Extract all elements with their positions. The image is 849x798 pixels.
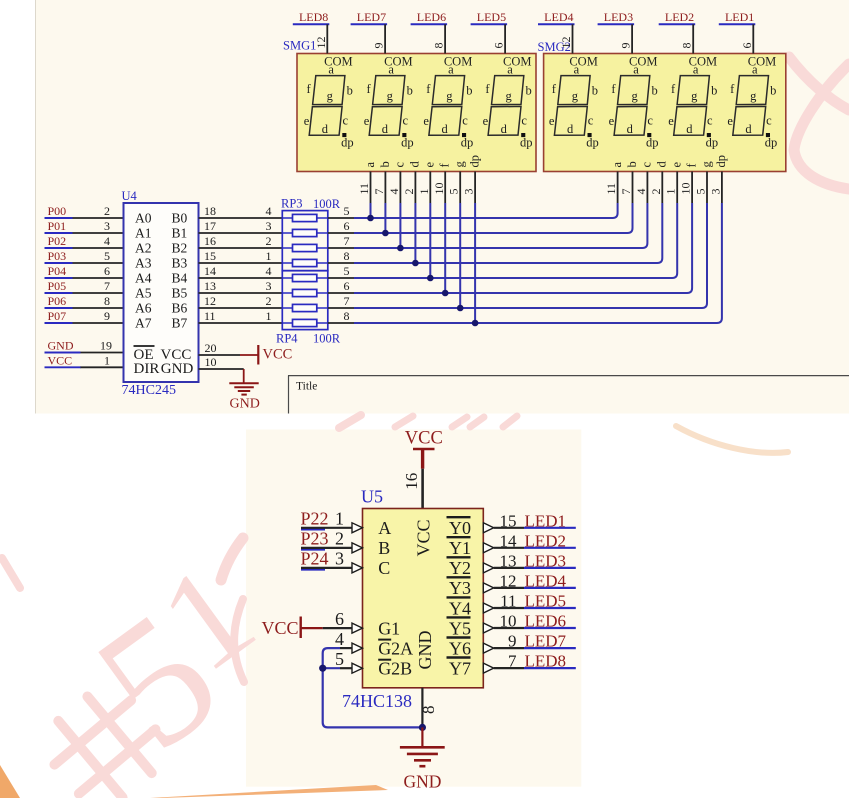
- wire SMG1 pin drop 4: [414, 203, 416, 263]
- net label P00: [45, 217, 73, 219]
- pin triangle Y0: [483, 523, 493, 533]
- svg-text:A6: A6: [135, 301, 152, 316]
- svg-text:Y7: Y7: [449, 658, 471, 678]
- wire U4 pin 15 to RP: [199, 262, 283, 264]
- resistor network RP3 box: [282, 211, 328, 271]
- net label VCC: [45, 366, 81, 368]
- net label P07: [45, 322, 73, 324]
- resistor network RP4 box: [282, 271, 328, 330]
- resistor element 2: [282, 232, 328, 234]
- display module SMG1 body: [297, 54, 536, 172]
- wire segment bus row 2: [354, 203, 633, 233]
- svg-text:2: 2: [266, 234, 272, 248]
- svg-text:8: 8: [344, 309, 350, 323]
- svg-text:19: 19: [100, 339, 112, 353]
- svg-text:2: 2: [266, 294, 272, 308]
- wire U4 pin 20 to VCC: [199, 354, 241, 356]
- svg-text:GND: GND: [230, 397, 260, 412]
- net label LED8: [524, 667, 576, 669]
- pin triangle Y1: [483, 543, 493, 553]
- resistor element 8: [282, 322, 328, 324]
- svg-text:17: 17: [204, 219, 216, 233]
- svg-text:GND: GND: [415, 631, 435, 670]
- wire U4 pin 18 to RP: [199, 217, 283, 219]
- RP output pin 8: [328, 262, 354, 264]
- svg-text:b: b: [711, 83, 717, 97]
- svg-text:12: 12: [559, 37, 573, 49]
- svg-text:9: 9: [508, 632, 517, 651]
- svg-text:e: e: [549, 114, 555, 128]
- svg-text:LED8: LED8: [299, 10, 328, 24]
- wire U5 pin 4 G2A loop: [323, 648, 423, 727]
- svg-text:6: 6: [344, 219, 350, 233]
- svg-text:c: c: [403, 114, 409, 128]
- wire P05 to U4 pin 7: [72, 292, 124, 294]
- svg-text:dp: dp: [586, 136, 599, 150]
- svg-text:11: 11: [204, 309, 216, 323]
- SMG1 pin stub c: [399, 172, 401, 204]
- svg-text:g: g: [691, 89, 698, 103]
- 7-segment digit SMG2-3: [668, 55, 718, 150]
- junction node row 8: [472, 320, 479, 327]
- svg-text:GND: GND: [48, 339, 74, 353]
- svg-text:16: 16: [204, 234, 216, 248]
- svg-text:a: a: [610, 162, 624, 168]
- svg-text:10: 10: [679, 183, 693, 195]
- svg-text:LED5: LED5: [477, 10, 506, 24]
- svg-text:a: a: [363, 162, 377, 168]
- svg-text:P02: P02: [48, 234, 67, 248]
- wire segment bus row 4: [354, 203, 662, 263]
- net label P04: [45, 277, 73, 279]
- svg-text:VCC: VCC: [262, 618, 299, 638]
- wire U4 pin 12 to RP: [199, 307, 283, 309]
- wire segment bus row 3: [354, 203, 647, 248]
- svg-text:9: 9: [104, 309, 110, 323]
- svg-text:5: 5: [694, 189, 708, 195]
- svg-text:SMG1: SMG1: [283, 39, 316, 53]
- svg-text:d: d: [501, 122, 508, 136]
- svg-text:d: d: [745, 122, 752, 136]
- svg-text:c: c: [343, 114, 349, 128]
- wire U4 pin 11 to RP: [199, 322, 283, 324]
- svg-text:8: 8: [419, 706, 438, 715]
- wire COM LED5: [504, 24, 506, 53]
- wire GND to U4 pin 19: [80, 352, 124, 354]
- resistor element 5: [282, 277, 328, 279]
- svg-text:5: 5: [104, 249, 110, 263]
- wire Y2 to LED3: [494, 567, 524, 569]
- svg-text:VCC: VCC: [48, 353, 73, 367]
- svg-text:e: e: [304, 114, 310, 128]
- SMG2 pin stub e: [676, 172, 678, 204]
- svg-text:4: 4: [266, 204, 272, 218]
- svg-text:b: b: [770, 83, 776, 97]
- svg-text:RP3: RP3: [281, 197, 303, 211]
- svg-text:1: 1: [266, 309, 272, 323]
- svg-text:B3: B3: [172, 256, 188, 271]
- net label LED4: [524, 587, 576, 589]
- wire U4 pin 17 to RP: [199, 232, 283, 234]
- svg-text:RP4: RP4: [276, 332, 298, 346]
- svg-text:g: g: [387, 89, 394, 103]
- junction node row 4: [412, 260, 419, 267]
- svg-text:8: 8: [432, 43, 446, 49]
- svg-text:9: 9: [372, 43, 386, 49]
- svg-text:dp: dp: [341, 136, 354, 150]
- SMG2 pin stub c: [646, 172, 648, 204]
- wire VCC to U4 pin 1: [80, 366, 124, 368]
- svg-text:A3: A3: [135, 256, 152, 271]
- resistor element 3: [282, 247, 328, 249]
- ground symbol (U5 pin 8): [421, 727, 423, 747]
- svg-text:4: 4: [266, 264, 272, 278]
- wire segment bus row 8: [354, 203, 722, 323]
- svg-text:1: 1: [417, 189, 431, 195]
- svg-text:74HC138: 74HC138: [342, 691, 412, 711]
- svg-text:3: 3: [266, 279, 272, 293]
- svg-text:1: 1: [266, 249, 272, 263]
- pin triangle 3: [352, 563, 363, 573]
- SMG2 pin stub dp: [721, 172, 723, 204]
- svg-text:G2B: G2B: [378, 658, 412, 678]
- svg-text:d: d: [322, 122, 329, 136]
- svg-text:2: 2: [335, 529, 344, 549]
- svg-text:6: 6: [492, 43, 506, 49]
- junction node row 2: [382, 230, 389, 237]
- svg-text:dp: dp: [461, 136, 474, 150]
- svg-text:12: 12: [314, 37, 328, 49]
- 7-segment digit SMG1-4: [483, 55, 533, 150]
- svg-text:14: 14: [204, 264, 216, 278]
- wire SMG1 pin drop 7: [459, 203, 461, 308]
- svg-text:4: 4: [104, 234, 110, 248]
- junction node row 1: [367, 215, 374, 222]
- svg-text:4: 4: [387, 189, 401, 195]
- pin triangle Y2: [483, 563, 493, 573]
- svg-text:B2: B2: [172, 241, 188, 256]
- svg-text:14: 14: [500, 531, 518, 550]
- svg-text:b: b: [466, 83, 472, 97]
- wire Y6 to LED7: [494, 647, 524, 649]
- svg-text:a: a: [693, 62, 699, 76]
- svg-text:A1: A1: [135, 226, 152, 241]
- svg-text:B6: B6: [172, 301, 188, 316]
- net label LED7: [524, 647, 576, 649]
- svg-text:8: 8: [104, 294, 110, 308]
- SMG1 pin stub d: [414, 172, 416, 204]
- svg-text:a: a: [448, 62, 454, 76]
- svg-text:b: b: [378, 161, 392, 167]
- svg-text:LED6: LED6: [417, 10, 446, 24]
- svg-text:G2A: G2A: [378, 638, 413, 658]
- wire U4 pin 10 to GND: [199, 368, 244, 370]
- schematic sheet (top scan): [36, 0, 849, 414]
- svg-text:6: 6: [344, 279, 350, 293]
- svg-text:A: A: [378, 518, 391, 538]
- svg-text:P23: P23: [301, 529, 329, 549]
- wire Y0 to LED1: [494, 527, 524, 529]
- svg-text:4: 4: [335, 629, 344, 649]
- svg-text:13: 13: [500, 551, 517, 570]
- svg-text:3: 3: [104, 219, 110, 233]
- wire COM LED8: [326, 24, 328, 53]
- net label LED2: [524, 547, 576, 549]
- sheet left border line: [35, 0, 37, 414]
- junction node row 5: [427, 275, 434, 282]
- watermark lattice glyph bottom left: [35, 677, 176, 798]
- svg-text:LED2: LED2: [525, 531, 567, 550]
- svg-text:100R: 100R: [313, 197, 341, 211]
- decoder U5 74HC138 body: [363, 509, 484, 688]
- svg-text:LED2: LED2: [665, 10, 694, 24]
- resistor element 6: [282, 292, 328, 294]
- RP output pin 7: [328, 247, 354, 249]
- wire COM LED1: [752, 24, 754, 53]
- svg-text:11: 11: [604, 183, 618, 195]
- SMG1 pin stub dp: [474, 172, 476, 204]
- watermark pink strokes middle: [2, 415, 517, 682]
- net label LED6: [524, 627, 576, 629]
- wire SMG1 pin drop 5: [429, 203, 431, 278]
- svg-text:2: 2: [649, 189, 663, 195]
- wire P24 to U5 pin 3: [301, 567, 352, 569]
- junction node row 7: [457, 305, 464, 312]
- svg-text:18: 18: [204, 204, 216, 218]
- wire P23 to U5 pin 2: [301, 547, 352, 549]
- svg-text:VCC: VCC: [414, 519, 434, 556]
- svg-text:Y6: Y6: [449, 638, 471, 658]
- SMG1 pin stub g: [459, 172, 461, 204]
- svg-text:C: C: [378, 558, 390, 578]
- svg-text:d: d: [408, 161, 422, 168]
- SMG2 pin stub b: [632, 172, 634, 204]
- svg-text:Y2: Y2: [449, 558, 471, 578]
- ground symbol (U4 pin 10): [243, 369, 245, 383]
- svg-text:4: 4: [634, 189, 648, 195]
- svg-text:Title: Title: [296, 381, 317, 393]
- RP output pin 7: [328, 307, 354, 309]
- svg-text:dp: dp: [401, 136, 414, 150]
- svg-text:g: g: [327, 89, 334, 103]
- svg-text:g: g: [505, 89, 512, 103]
- svg-text:e: e: [364, 114, 370, 128]
- svg-text:c: c: [766, 114, 772, 128]
- wire VCC to U5 pin 6: [323, 627, 353, 629]
- svg-text:1: 1: [664, 189, 678, 195]
- svg-text:6: 6: [335, 609, 344, 629]
- wire P04 to U4 pin 6: [72, 277, 124, 279]
- svg-text:c: c: [707, 114, 713, 128]
- svg-text:1: 1: [335, 509, 344, 529]
- wire Y7 to LED8: [494, 667, 524, 669]
- svg-text:a: a: [507, 62, 513, 76]
- svg-text:5: 5: [344, 264, 350, 278]
- svg-text:dp: dp: [706, 136, 719, 150]
- svg-text:2: 2: [402, 189, 416, 195]
- wire P03 to U4 pin 5: [72, 262, 124, 264]
- svg-text:P06: P06: [48, 294, 67, 308]
- svg-text:7: 7: [372, 189, 386, 195]
- svg-text:7: 7: [104, 279, 110, 293]
- svg-text:G1: G1: [378, 618, 400, 638]
- svg-text:g: g: [446, 89, 453, 103]
- svg-text:d: d: [382, 122, 389, 136]
- wire COM LED6: [444, 24, 446, 53]
- svg-text:b: b: [525, 83, 531, 97]
- svg-text:e: e: [668, 114, 674, 128]
- svg-text:e: e: [609, 114, 615, 128]
- wire P00 to U4 pin 2: [72, 217, 124, 219]
- svg-text:P04: P04: [48, 264, 67, 278]
- pin triangle Y6: [483, 643, 493, 653]
- resistor element 4: [282, 262, 328, 264]
- svg-text:dp: dp: [520, 136, 533, 150]
- wire Y1 to LED2: [494, 547, 524, 549]
- RP output pin 8: [328, 322, 354, 324]
- svg-text:Y0: Y0: [449, 518, 471, 538]
- wire segment bus row 7: [354, 203, 707, 308]
- wire SMG1 pin drop 8: [474, 203, 476, 323]
- svg-text:P01: P01: [48, 219, 67, 233]
- power symbol VCC (U4 pin 20): [240, 354, 258, 356]
- svg-text:LED4: LED4: [544, 10, 573, 24]
- svg-text:5: 5: [335, 649, 344, 669]
- SMG2 pin stub g: [706, 172, 708, 204]
- wire SMG1 pin drop 3: [399, 203, 401, 248]
- svg-text:11: 11: [357, 183, 371, 195]
- SMG1 pin stub b: [384, 172, 386, 204]
- svg-text:8: 8: [680, 43, 694, 49]
- wire P07 to U4 pin 9: [72, 322, 124, 324]
- svg-text:P03: P03: [48, 249, 67, 263]
- resistor element 7: [282, 307, 328, 309]
- SMG2 pin stub a: [617, 172, 619, 204]
- svg-text:d: d: [686, 122, 693, 136]
- RP output pin 5: [328, 277, 354, 279]
- wire U4 pin 14 to RP: [199, 277, 283, 279]
- junction node G2B: [319, 665, 326, 672]
- 7-segment digit SMG2-1: [549, 55, 599, 150]
- wire VCC to U5 pin 16: [421, 469, 424, 509]
- svg-text:3: 3: [266, 219, 272, 233]
- svg-text:B5: B5: [172, 286, 188, 301]
- svg-text:B7: B7: [172, 316, 188, 331]
- svg-text:c: c: [462, 114, 468, 128]
- svg-text:e: e: [423, 114, 429, 128]
- svg-text:7: 7: [344, 234, 350, 248]
- 7-segment digit SMG1-1: [304, 55, 354, 150]
- pin triangle 6: [352, 623, 363, 633]
- svg-text:LED3: LED3: [525, 551, 567, 570]
- buffer U4 74HC245 body: [124, 203, 199, 382]
- wire COM LED7: [384, 24, 386, 53]
- svg-text:6: 6: [104, 264, 110, 278]
- net label LED5: [524, 607, 576, 609]
- pin triangle Y3: [483, 583, 493, 593]
- wire segment bus row 1: [354, 203, 618, 218]
- svg-text:a: a: [328, 62, 334, 76]
- svg-text:1: 1: [104, 353, 110, 367]
- svg-text:g: g: [631, 89, 638, 103]
- display module SMG2 body: [544, 54, 786, 172]
- pin triangle Y4: [483, 603, 493, 613]
- wire U5 pin 5 G2B: [323, 667, 340, 669]
- svg-text:b: b: [651, 83, 657, 97]
- watermark orange strip bottom: [150, 785, 388, 798]
- SMG1 pin stub a: [370, 172, 372, 204]
- svg-text:P05: P05: [48, 279, 67, 293]
- svg-text:P22: P22: [301, 509, 329, 529]
- net label P03: [45, 262, 73, 264]
- svg-text:B: B: [378, 538, 390, 558]
- RP output pin 6: [328, 292, 354, 294]
- svg-text:LED6: LED6: [525, 612, 567, 631]
- svg-text:P24: P24: [301, 549, 329, 569]
- svg-text:6: 6: [740, 43, 754, 49]
- svg-text:74HC245: 74HC245: [122, 383, 176, 398]
- wire COM LED4: [572, 24, 574, 53]
- svg-text:VCC: VCC: [263, 347, 293, 363]
- SMG2 pin stub f: [691, 172, 693, 204]
- watermark tan curve right of VCC: [676, 426, 788, 453]
- pin triangle Y5: [483, 623, 493, 633]
- wire COM LED3: [631, 24, 633, 53]
- svg-text:A4: A4: [135, 271, 152, 286]
- svg-text:dp: dp: [646, 136, 659, 150]
- svg-text:b: b: [592, 83, 598, 97]
- svg-text:e: e: [483, 114, 489, 128]
- svg-text:LED1: LED1: [525, 511, 567, 530]
- svg-text:100R: 100R: [313, 332, 341, 346]
- svg-text:e: e: [423, 162, 437, 168]
- wire P06 to U4 pin 8: [72, 307, 124, 309]
- watermark orange corner wedge: [0, 765, 20, 798]
- svg-text:DIR: DIR: [134, 361, 160, 377]
- svg-text:A0: A0: [135, 211, 152, 226]
- wire P01 to U4 pin 3: [72, 232, 124, 234]
- wire U4 pin 16 to RP: [199, 247, 283, 249]
- svg-text:12: 12: [500, 571, 517, 590]
- RP output pin 5: [328, 217, 354, 219]
- svg-text:5: 5: [344, 204, 350, 218]
- resistor element 1: [282, 217, 328, 219]
- pin triangle 2: [352, 543, 363, 553]
- svg-text:10: 10: [432, 183, 446, 195]
- watermark pink ribbon curves top right: [789, 57, 849, 189]
- wire P02 to U4 pin 4: [72, 247, 124, 249]
- svg-text:LED8: LED8: [525, 652, 567, 671]
- wire segment bus row 5: [354, 203, 677, 278]
- wire Y4 to LED5: [494, 607, 524, 609]
- net label GND: [45, 352, 81, 354]
- schematic sheet (bottom scan): [246, 430, 581, 787]
- svg-text:9: 9: [619, 43, 633, 49]
- svg-text:B1: B1: [172, 226, 188, 241]
- svg-text:13: 13: [204, 279, 216, 293]
- junction node row 6: [442, 290, 449, 297]
- svg-text:g: g: [453, 161, 467, 168]
- svg-text:GND: GND: [161, 361, 194, 377]
- wire U5 pin 8 to GND: [421, 688, 423, 728]
- wire segment bus row 6: [354, 203, 692, 293]
- pin triangle 1: [352, 523, 363, 533]
- junction node GND: [419, 724, 426, 731]
- net label LED3: [524, 567, 576, 569]
- svg-text:g: g: [572, 89, 579, 103]
- svg-text:3: 3: [335, 549, 344, 569]
- svg-text:d: d: [441, 122, 448, 136]
